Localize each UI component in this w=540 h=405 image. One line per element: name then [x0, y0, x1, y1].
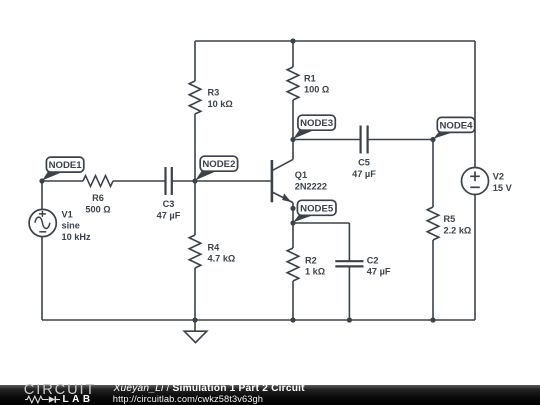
R6 value label	[85, 193, 110, 214]
wire right rail lower (V2 to bottom rail)	[474, 194, 476, 320]
resistor R6	[83, 176, 113, 187]
svg-text:4.7 kΩ: 4.7 kΩ	[208, 254, 236, 264]
wire R5 to bottom rail	[432, 240, 434, 320]
CircuitLab wordmark	[24, 382, 96, 398]
wire NODE1 to R6	[42, 180, 83, 182]
wire down to C2 top plate	[348, 223, 350, 261]
wire top rail to R3	[194, 41, 196, 81]
footer bar	[0, 385, 540, 405]
node label NODE2	[195, 156, 237, 180]
voltage source V1 (sine)	[29, 209, 56, 236]
V2 value label	[493, 171, 513, 192]
svg-text:NODE1: NODE1	[49, 160, 83, 171]
wire top rail to R1	[292, 41, 294, 67]
svg-text:sine: sine	[62, 221, 80, 231]
node dot NODE1	[39, 178, 44, 183]
svg-text:100 Ω: 100 Ω	[304, 85, 329, 95]
svg-text:NODE2: NODE2	[202, 159, 235, 170]
wire C5 to NODE4	[368, 139, 433, 141]
node label NODE5	[293, 200, 336, 222]
node dot NODE3	[290, 137, 295, 142]
svg-text:NODE5: NODE5	[300, 203, 334, 214]
R1 value label	[304, 73, 329, 94]
C5 value label	[352, 157, 376, 178]
R4 value label	[208, 242, 236, 263]
voltage source V2	[462, 168, 489, 195]
wire NODE5 to R2	[292, 223, 294, 248]
resistor R3	[189, 81, 201, 114]
svg-text:Q1: Q1	[295, 170, 307, 180]
svg-text:R4: R4	[208, 242, 221, 252]
svg-text:C5: C5	[358, 157, 370, 167]
svg-text:R2: R2	[305, 255, 317, 265]
wire bottom rail	[42, 319, 475, 321]
resistor R1	[287, 67, 299, 100]
C3 value label	[157, 199, 181, 220]
svg-text:V2: V2	[493, 171, 504, 181]
credit line 2	[113, 394, 263, 404]
svg-text:10 kHz: 10 kHz	[62, 232, 92, 242]
node dot NODE4	[430, 137, 435, 142]
capacitor C5	[361, 126, 368, 154]
wire NODE5 to C2 branch	[293, 222, 349, 224]
node label NODE4	[433, 117, 474, 138]
wire R1 to NODE3	[292, 100, 294, 140]
C2 value label	[367, 255, 391, 276]
wire NODE3 to C5	[293, 139, 360, 141]
wire C2 bottom plate to bottom rail	[348, 266, 350, 320]
svg-text:2.2 kΩ: 2.2 kΩ	[444, 225, 472, 235]
wire R3 to NODE2	[194, 114, 196, 181]
node dot NODE2	[192, 178, 197, 183]
svg-text:1 kΩ: 1 kΩ	[305, 267, 325, 277]
resistor R4	[189, 235, 201, 268]
R2 value label	[305, 255, 325, 276]
node label NODE1	[42, 157, 84, 180]
resistor R2	[287, 248, 299, 281]
svg-text:47 µF: 47 µF	[367, 267, 391, 277]
node dot ground junction	[192, 317, 197, 322]
svg-text:47 µF: 47 µF	[352, 169, 376, 179]
wire V1 bottom to bottom rail	[41, 237, 43, 320]
svg-text:C2: C2	[367, 255, 379, 265]
V1 value label	[62, 209, 92, 242]
ground	[184, 320, 207, 343]
CircuitLab LAB wordmark	[63, 394, 94, 405]
credit line 1	[114, 383, 305, 394]
wire R6 to C3	[113, 180, 165, 182]
svg-text:R5: R5	[444, 214, 456, 224]
R5 value label	[444, 214, 472, 235]
svg-text:10 kΩ: 10 kΩ	[208, 99, 233, 109]
svg-text:R3: R3	[208, 88, 220, 98]
R3 value label	[208, 88, 233, 109]
capacitor C3	[166, 167, 172, 195]
wire NODE2 to R4	[194, 181, 196, 235]
svg-text:R1: R1	[304, 73, 316, 83]
svg-text:500 Ω: 500 Ω	[85, 205, 110, 215]
capacitor C2	[335, 261, 363, 266]
node dot R5 / bottom rail	[430, 317, 435, 322]
svg-text:NODE4: NODE4	[439, 120, 473, 131]
svg-text:15 V: 15 V	[493, 183, 513, 193]
svg-text:V1: V1	[62, 209, 73, 219]
CircuitLab logo resistor-diode waveform	[25, 395, 62, 404]
wire right rail upper (top rail to V2)	[474, 41, 476, 168]
svg-text:47 µF: 47 µF	[157, 210, 181, 220]
wire NODE2 to Q1 base	[195, 180, 271, 182]
svg-text:R6: R6	[92, 193, 104, 203]
svg-text:2N2222: 2N2222	[295, 181, 327, 191]
wire top rail	[195, 40, 475, 42]
wire NODE4 to R5	[432, 140, 434, 208]
wire C3 to NODE2	[172, 180, 195, 182]
wire R4 to ground junction	[194, 268, 196, 320]
resistor R5	[427, 207, 439, 240]
svg-text:NODE3: NODE3	[300, 118, 333, 129]
node dot R2 / bottom rail	[290, 317, 295, 322]
svg-text:C3: C3	[163, 199, 175, 209]
node dot C2 / bottom rail	[347, 317, 352, 322]
wire R2 to bottom rail	[292, 281, 294, 320]
Q1 value label	[295, 170, 327, 191]
transistor Q1 (NPN 2N2222)	[272, 140, 293, 209]
node label NODE3	[293, 115, 335, 139]
wire NODE1 to V1 top	[41, 181, 43, 209]
node dot top rail / R1 junction	[290, 38, 295, 43]
node dot NODE5 / C2 tee	[290, 220, 295, 225]
node dot NODE5 emitter	[290, 206, 295, 211]
wire Q1 emitter to NODE5	[292, 208, 294, 223]
